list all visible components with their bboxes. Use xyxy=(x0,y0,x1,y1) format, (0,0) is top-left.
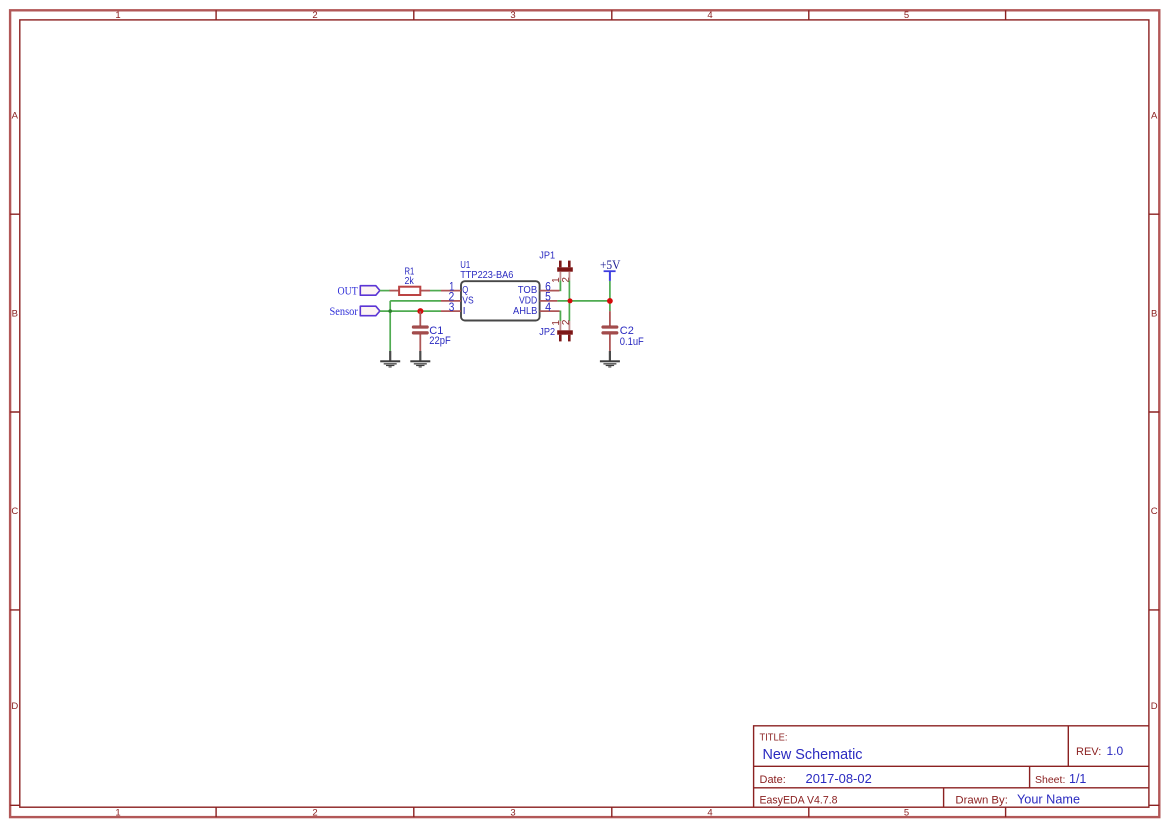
svg-text:4: 4 xyxy=(707,10,712,21)
svg-text:22pF: 22pF xyxy=(429,335,451,347)
svg-text:A: A xyxy=(1151,111,1158,122)
wire +5V to VDD junction xyxy=(609,281,611,311)
wire JP1 pin1 to U1 pin6 xyxy=(559,281,561,292)
svg-text:Your Name: Your Name xyxy=(1017,793,1080,807)
svg-text:Date:: Date: xyxy=(760,774,786,786)
wire R1 to U1 pin 1 xyxy=(430,290,441,292)
svg-text:3: 3 xyxy=(510,10,515,21)
svg-text:3: 3 xyxy=(449,302,455,314)
svg-text:3: 3 xyxy=(510,807,515,818)
svg-text:EasyEDA V4.7.8: EasyEDA V4.7.8 xyxy=(760,795,838,807)
svg-text:1.0: 1.0 xyxy=(1107,744,1124,758)
svg-text:TTP223-BA6: TTP223-BA6 xyxy=(460,270,514,281)
svg-text:C: C xyxy=(1151,506,1158,517)
U1 pin 3 I xyxy=(441,302,465,317)
svg-text:Drawn By:: Drawn By: xyxy=(955,795,1008,807)
svg-text:TITLE:: TITLE: xyxy=(760,732,788,744)
jumper JP2 xyxy=(539,319,573,341)
wire JP1 pin2 to JP2 pin2 vertical xyxy=(568,281,570,322)
wire VS net: vertical drop to ground xyxy=(389,301,391,351)
svg-text:D: D xyxy=(1151,701,1158,712)
svg-text:I: I xyxy=(463,306,466,317)
svg-text:4: 4 xyxy=(707,807,712,818)
svg-text:1: 1 xyxy=(115,10,120,21)
capacitor C2 xyxy=(602,311,644,351)
svg-text:B: B xyxy=(12,309,18,320)
port OUT xyxy=(338,285,380,297)
svg-text:1/1: 1/1 xyxy=(1069,772,1086,786)
resistor R1 xyxy=(390,266,431,296)
svg-text:2: 2 xyxy=(312,10,317,21)
wire VDD net horizontal xyxy=(557,300,610,302)
wire OUT to R1 xyxy=(380,290,390,292)
svg-text:1: 1 xyxy=(115,807,120,818)
svg-text:B: B xyxy=(1151,309,1157,320)
U1 pin 1 Q xyxy=(441,281,468,296)
ground GND3 xyxy=(600,351,620,368)
svg-text:Sensor: Sensor xyxy=(330,306,358,318)
svg-text:OUT: OUT xyxy=(338,285,358,297)
svg-text:2: 2 xyxy=(312,807,317,818)
power flag +5V xyxy=(600,258,621,281)
junction J1 (red) on Sensor wire at C1 xyxy=(417,308,423,314)
ground GND1 xyxy=(380,351,400,368)
U1 pin 4 AHLB xyxy=(513,302,560,317)
svg-text:New Schematic: New Schematic xyxy=(763,747,863,763)
U1 pin 6 TOB xyxy=(518,281,560,296)
svg-text:D: D xyxy=(11,701,18,712)
svg-text:5: 5 xyxy=(904,10,909,21)
svg-text:2k: 2k xyxy=(405,275,415,287)
svg-text:AHLB: AHLB xyxy=(513,306,538,317)
svg-text:4: 4 xyxy=(545,302,552,314)
wire Sensor to U1 pin 3 xyxy=(380,310,441,312)
wire U1 pin4 to JP2 pin1 xyxy=(559,311,561,322)
svg-text:JP2: JP2 xyxy=(539,326,555,338)
junction (green) at Sensor wire crossing xyxy=(388,309,392,313)
title block xyxy=(754,726,1149,807)
svg-text:2017-08-02: 2017-08-02 xyxy=(806,772,872,786)
capacitor C1 xyxy=(412,311,451,351)
svg-text:2: 2 xyxy=(561,319,572,325)
wire VS net: pin 2 to ground, horizontal xyxy=(390,300,441,302)
chip U1 TTP223-BA6 xyxy=(460,260,539,321)
U1 pin 2 VS xyxy=(441,292,474,307)
junction J3 (red) at +5V / C2 xyxy=(607,298,613,304)
port Sensor xyxy=(330,306,380,318)
svg-text:0.1uF: 0.1uF xyxy=(620,336,644,348)
svg-text:C: C xyxy=(11,506,18,517)
svg-text:A: A xyxy=(12,111,19,122)
svg-text:5: 5 xyxy=(904,807,909,818)
junction J2 (red) VDD at JP column xyxy=(568,298,573,303)
svg-text:JP1: JP1 xyxy=(539,250,555,262)
jumper JP1 xyxy=(539,250,573,283)
svg-text:+5V: +5V xyxy=(600,258,621,272)
U1 pin 5 VDD xyxy=(519,292,557,307)
svg-text:Sheet:: Sheet: xyxy=(1035,774,1065,786)
ground GND2 xyxy=(410,351,430,368)
svg-text:REV:: REV: xyxy=(1076,746,1101,758)
